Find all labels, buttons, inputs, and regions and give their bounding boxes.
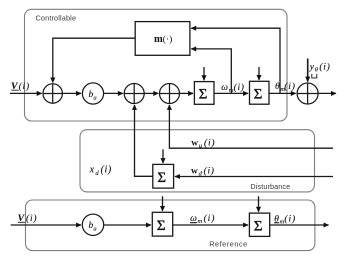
integrator Sr2 (reference sigma box) [249, 213, 269, 236]
Reference group box [26, 200, 315, 251]
svg-text:Σ: Σ [254, 86, 263, 102]
svg-text:w: w [191, 138, 198, 148]
stub arrow into Sd top [162, 149, 164, 163]
wire Sr1 to Sr2 (omega ref node) [173, 224, 248, 226]
svg-text:Disturbance: Disturbance [250, 182, 290, 191]
stub arrow into S1 top [203, 67, 205, 80]
svg-text:Controllable: Controllable [36, 14, 77, 23]
svg-text:(i): (i) [19, 81, 30, 92]
svg-text:(i): (i) [284, 213, 296, 224]
integrator Sr1 (reference sigma box) [152, 212, 172, 236]
gain block ba (reference) [82, 214, 103, 235]
wire m output to C1 top [53, 38, 135, 82]
wire V(i) reference input to ba2 [11, 224, 81, 226]
wire output from CR [318, 92, 336, 94]
svg-text:Σ: Σ [254, 218, 263, 234]
wire w_d(i) line into Sd right [175, 176, 333, 178]
wire ba2 to Sr1 [104, 224, 151, 226]
Controllable group box [25, 9, 288, 121]
svg-text:ω: ω [221, 83, 228, 93]
stub arrow into Sr1 top [162, 196, 164, 211]
wire V(i) input to sum C1 [10, 92, 42, 94]
svg-text:θ: θ [275, 82, 280, 92]
wire S2 to sum CR (theta node) [269, 92, 296, 94]
gain block ba (top) [82, 83, 103, 104]
svg-text:Σ: Σ [157, 170, 166, 186]
svg-text:(i): (i) [319, 61, 330, 72]
svg-text:m: m [154, 34, 163, 45]
summing junction CA [124, 84, 144, 104]
svg-text:(·): (·) [163, 34, 173, 45]
svg-text:(i): (i) [101, 165, 112, 176]
svg-text:Σ: Σ [199, 87, 208, 103]
svg-text:(i): (i) [234, 82, 245, 93]
wire w_u(i) line to CB bottom [169, 105, 333, 148]
integrator S2 (sigma box) [250, 81, 270, 104]
wire CB to integrator S1 [180, 92, 194, 94]
wire CA to sum CB [144, 92, 158, 94]
stub arrow into S2 top [258, 67, 260, 80]
svg-text:a: a [93, 226, 96, 233]
wire ba to sum CA [104, 92, 123, 94]
Disturbance group box [80, 130, 315, 192]
svg-text:θ: θ [274, 214, 279, 224]
summing junction CB [160, 84, 180, 104]
svg-text:x: x [89, 165, 95, 176]
svg-text:Σ: Σ [157, 218, 166, 234]
svg-text:w: w [191, 166, 198, 176]
wire S1 to S2 (omega node) [214, 92, 248, 94]
svg-text:m: m [198, 218, 203, 225]
wire Sr2 output (theta ref) [270, 224, 329, 226]
wire Sd output to CA bottom [135, 105, 153, 176]
summing junction CR (output) [297, 83, 318, 104]
svg-text:(i): (i) [284, 81, 296, 92]
stub arrow into Sr2 top [258, 196, 260, 212]
summing junction C1 [43, 84, 62, 103]
svg-text:a: a [93, 94, 96, 101]
svg-text:(i): (i) [26, 213, 37, 224]
wire omega feedback riser to m input (lower) [191, 49, 231, 94]
svg-text:(i): (i) [204, 213, 216, 224]
svg-text:(i): (i) [204, 165, 215, 176]
svg-text:ω: ω [190, 214, 197, 224]
integrator S1 (sigma box) [194, 82, 214, 105]
svg-text:(i): (i) [204, 137, 215, 148]
nonlinear block m(.) [135, 22, 190, 56]
wire theta feedback riser to m input (top) [191, 28, 280, 93]
small square symbol [312, 74, 317, 78]
svg-text:Reference: Reference [209, 240, 247, 249]
wire y_theta(i) stub into CR top [307, 59, 309, 82]
wire C1 to ba [62, 92, 81, 94]
integrator Sd (disturbance sigma box) [153, 164, 174, 188]
